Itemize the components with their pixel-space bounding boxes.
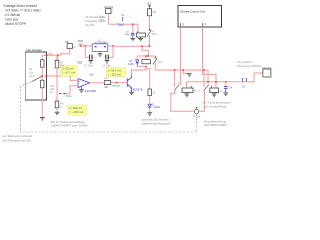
svg-text:Rel 1: Rel 1 — [152, 33, 158, 36]
svg-text:- LED aus: - LED aus — [4, 18, 19, 22]
note J2 simuliert — [237, 60, 261, 68]
ground under R1 chain — [40, 118, 45, 121]
wire VCC to IC left pin — [84, 45, 92, 47]
junction rail / box edge — [46, 54, 48, 56]
svg-text:- IST-Wert <= SOLL-Wert: - IST-Wert <= SOLL-Wert — [4, 8, 41, 12]
svg-text:Endlage Motor erreicht: Endlage Motor erreicht — [4, 4, 37, 8]
junction rail / coil right — [215, 81, 217, 83]
Dimmung box — [259, 68, 272, 77]
junction top bar / coil K2 — [145, 55, 147, 57]
svg-text:100n: 100n — [125, 34, 131, 36]
relay contact K3a (left) — [174, 70, 176, 85]
jumper J1 — [121, 13, 124, 22]
ground under emitter — [129, 92, 134, 95]
potentiometer R1 upper half — [41, 60, 44, 67]
svg-text:U: 96.4 mV: U: 96.4 mV — [108, 69, 122, 73]
dashed mechanical links — [20, 82, 196, 132]
opamp output wire — [90, 82, 105, 84]
CCU pin wires — [180, 27, 182, 84]
op-amp U1A — [78, 73, 97, 93]
svg-text:(SERVOWERT bzw. 100%): (SERVOWERT bzw. 100%) — [51, 124, 88, 128]
resistor R2 with +12 flag — [146, 2, 157, 16]
diode D1 — [128, 56, 139, 67]
label poti — [50, 85, 55, 94]
label R1 value — [29, 68, 36, 78]
+input wire (IST) — [44, 76, 78, 80]
bottom of stage 2: coil to transistor collector — [132, 67, 147, 76]
svg-text:Port Actuator: Port Actuator — [26, 48, 42, 52]
ground under C5 — [130, 38, 135, 41]
wire R5 to R6 — [56, 68, 58, 101]
svg-text:lauft SERVOWERT: lauft SERVOWERT — [204, 123, 227, 127]
resistor R6 — [55, 101, 64, 108]
svg-text:Climate Control Unit: Climate Control Unit — [180, 9, 205, 13]
wire rail to J2 and Dimmung — [187, 73, 263, 82]
junction coil K2 bottom — [145, 66, 147, 68]
wire stage 2 feed — [142, 46, 148, 56]
junction rail / contact K1 — [149, 45, 151, 47]
wire R2 to contact K1 — [149, 16, 151, 30]
svg-text:Dimmung ON/OFF: Dimmung ON/OFF — [237, 64, 261, 68]
net label Tast — [117, 23, 124, 26]
wire SOLL wiper — [61, 93, 70, 95]
wire rail drop to R5 — [57, 55, 59, 66]
motor left wire — [171, 90, 194, 111]
svg-text:die SG: die SG — [85, 23, 95, 27]
junction rail / drop — [207, 81, 209, 83]
green net dot Transistor — [116, 82, 118, 84]
LED branch from coil bottom — [146, 67, 150, 89]
wire +12 rail to pots — [42, 55, 60, 60]
svg-text:optionale LED leuchtet: optionale LED leuchtet — [142, 117, 169, 121]
svg-text:1/2LM358: 1/2LM358 — [85, 90, 97, 93]
wire K2 line drop to rail — [207, 70, 209, 82]
relay contact K2 — [153, 56, 157, 65]
svg-text:U: 625 mV: U: 625 mV — [62, 67, 75, 71]
text Motordrehrichtung — [204, 119, 227, 127]
node SOLL — [64, 93, 73, 98]
svg-text:4V: 4V — [73, 46, 76, 49]
svg-text:der Stellmotor wirkt auf: der Stellmotor wirkt auf — [3, 134, 33, 138]
svg-text:LED1: LED1 — [154, 106, 161, 109]
resistor R5 — [55, 60, 64, 68]
motor M1 — [193, 107, 200, 119]
yellow note N2 — [61, 65, 78, 76]
wiper arrow SOLL pot — [59, 93, 62, 94]
svg-text:VSS: VSS — [77, 61, 82, 65]
coil box right — [210, 88, 219, 93]
VCC +5V arrow — [78, 39, 85, 47]
svg-text:- K1 fällt ab: - K1 fällt ab — [4, 13, 21, 17]
text K2+K3 — [203, 102, 232, 109]
svg-text:K2 a: K2 a — [158, 61, 164, 64]
junction top bar / feed — [148, 55, 150, 57]
junction VCC / decoupling — [85, 45, 87, 47]
svg-text:Transist: Transist — [112, 85, 121, 88]
text under R5 — [51, 120, 88, 128]
svg-text:4148: 4148 — [128, 63, 134, 66]
junction IST wire / box edge — [46, 75, 48, 77]
relay coil K1 — [136, 24, 145, 38]
ground under K1 coil — [138, 38, 143, 41]
svg-text:C2 100n: C2 100n — [102, 64, 112, 67]
wire ground stub on rail — [183, 70, 189, 73]
svg-text:J1: J1 — [121, 13, 124, 17]
right decoupling drop — [109, 46, 113, 57]
relay coil K2 — [142, 56, 151, 64]
svg-text:Motordrehrichtung: Motordrehrichtung — [204, 119, 226, 123]
note J1 simuliert — [85, 15, 106, 27]
title note text — [4, 4, 41, 26]
junction rail / R5 — [57, 54, 59, 56]
svg-text:das Potentiometer R5: das Potentiometer R5 — [3, 138, 31, 142]
svg-text:C1 100n: C1 100n — [84, 64, 94, 67]
junction rail / stage 2 feed — [141, 45, 143, 47]
ground under R6 — [55, 112, 60, 115]
yellow note N3 — [106, 68, 125, 77]
svg-text:SOLL: SOLL — [66, 95, 73, 98]
junction rail / ground stub — [182, 69, 184, 71]
svg-text:- Motor STOPP: - Motor STOPP — [4, 22, 27, 26]
svg-text:I: - 210 mA: I: - 210 mA — [108, 73, 121, 77]
wire R6 to ground — [56, 108, 58, 112]
ground on rail stub — [187, 74, 192, 77]
junction IC right pin / rail — [112, 45, 114, 47]
junction rail / C4 — [225, 81, 227, 83]
ground under coil left — [184, 94, 189, 97]
svg-text:I: - 47.1 mA: I: - 47.1 mA — [62, 71, 76, 75]
base wire from R4 — [111, 82, 128, 84]
top bar stage2 — [137, 55, 155, 57]
ground under coil right — [212, 94, 217, 97]
svg-text:U: 843 mV: U: 843 mV — [69, 106, 82, 110]
resistor R4 — [104, 78, 110, 90]
contact K2 to right relay — [155, 65, 208, 82]
IC1 LM358 power block — [92, 39, 108, 53]
-input wire (SOLL) — [70, 86, 78, 94]
capacitor C2 — [105, 55, 109, 61]
+12V supply box — [65, 40, 76, 49]
junction R1 wiper — [42, 75, 44, 77]
ground under C4 — [223, 93, 228, 96]
junction S1 wire / C5 — [132, 24, 134, 26]
wiper arrow R1 — [32, 76, 42, 81]
motor right wire — [199, 90, 205, 111]
svg-text:K2 + K3 ein gemeinsames: K2 + K3 ein gemeinsames — [203, 102, 232, 105]
wire R1 mid — [41, 67, 43, 80]
text bottom left — [3, 134, 33, 142]
svg-text:während des Motorlaufs: während des Motorlaufs — [142, 121, 171, 125]
svg-text:+12: +12 — [146, 2, 151, 6]
svg-text:I: - 2.89 mA: I: - 2.89 mA — [69, 110, 83, 114]
svg-text:servo: servo — [29, 75, 36, 78]
capacitor C4 — [224, 82, 233, 93]
svg-text:Tast=1: Tast=1 — [117, 24, 125, 27]
relay contact K3b (right) — [203, 70, 205, 85]
svg-text:4k7: 4k7 — [104, 86, 109, 89]
svg-text:U1A: U1A — [89, 73, 94, 76]
wire R1 bottom to ground — [41, 88, 43, 118]
ground under IC pin 4 — [98, 54, 103, 57]
Climate Control Unit — [178, 6, 222, 28]
wire +12 rail to R5 — [56, 55, 58, 60]
capacitor C5 — [125, 24, 135, 38]
wire S1 to K1 coil — [109, 14, 139, 25]
svg-text:Rel 1a: Rel 1a — [194, 90, 201, 92]
coil box left — [186, 82, 188, 88]
wire contact K1 to rail — [149, 37, 151, 46]
svg-text:Aus: Aus — [100, 19, 105, 22]
transistor T1 — [127, 75, 131, 92]
switch S1 Heizung — [100, 6, 114, 22]
power rail +5V from IC to relays — [113, 45, 150, 47]
yellow note N1 — [68, 105, 87, 115]
svg-text:+12: +12 — [48, 52, 53, 56]
IC right pin wire — [108, 45, 114, 47]
LED branch — [148, 89, 161, 113]
left decoupling drop — [85, 46, 89, 57]
capacitor C1 — [89, 55, 93, 61]
Port Actuator box — [25, 48, 46, 100]
potentiometer R1 lower half — [41, 80, 44, 88]
svg-text:M 10A: M 10A — [193, 116, 200, 119]
relay contact K1 — [147, 30, 151, 38]
jumper J2 — [241, 78, 247, 82]
svg-text:dyn. Umschalt-Relais: dyn. Umschalt-Relais — [204, 105, 227, 108]
svg-text:BC547B: BC547B — [133, 88, 143, 92]
